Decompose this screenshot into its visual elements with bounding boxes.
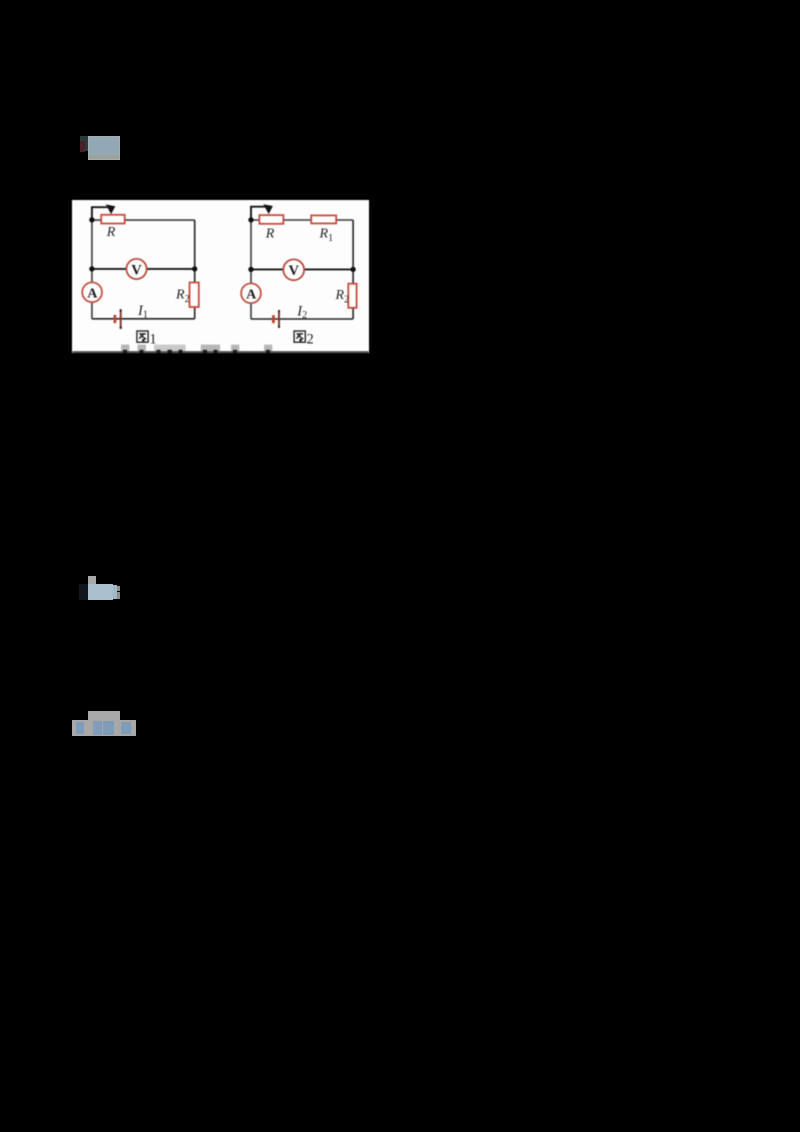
caption 图2 (figure 2) xyxy=(294,331,305,342)
rheostat arrow (slider of R, circuit2) xyxy=(251,204,273,220)
svg-text:V: V xyxy=(288,263,299,279)
node: circuit2 top-left junction xyxy=(248,217,253,222)
cropped next text line: dark stroke smear xyxy=(72,351,368,353)
subtitle fragment: grey tick upper xyxy=(117,586,120,592)
node: circuit1 middle-right junction xyxy=(192,266,197,271)
resistor R (rheostat body, circuit1) xyxy=(101,214,125,223)
subtitle fragment: grey tick lower xyxy=(117,592,120,599)
resistor R1 (circuit2) xyxy=(311,215,336,223)
cropped next text line: grey glyph tops xyxy=(121,344,272,351)
node: circuit2 middle-left junction xyxy=(248,266,253,271)
subtitle fragment: light blue sliver xyxy=(113,585,117,599)
svg-text:2: 2 xyxy=(306,331,313,347)
wire: circuit1 right vertical xyxy=(193,220,195,319)
subtitle fragment: dark glyph (middle caption) xyxy=(79,584,88,600)
svg-text:A: A xyxy=(246,287,257,302)
resistor R (rheostat body, circuit2) xyxy=(259,215,283,224)
wire: circuit1 top run (rheostat to right corner) xyxy=(91,219,194,221)
watermark block: lower grey rect (bottom-left logo) xyxy=(72,720,136,736)
caption 图1 (figure 1) xyxy=(136,331,147,342)
resistor R2 (circuit1) xyxy=(189,282,198,307)
svg-text:R: R xyxy=(264,226,274,241)
ammeter A (circuit1) xyxy=(82,282,102,302)
watermark block: upper grey rect (bottom-left logo) xyxy=(88,711,120,720)
subtitle fragment: grey square above highlight (middle caption) xyxy=(88,576,96,584)
node: circuit1 middle-left junction xyxy=(89,266,94,271)
battery (circuit2): short thick plate xyxy=(271,315,274,323)
watermark letters: blue glyph 3 xyxy=(103,721,114,735)
subtitle fragment: highlighted box (top caption) xyxy=(88,136,120,160)
wire: circuit1 middle horizontal (voltmeter branch) xyxy=(91,267,194,269)
wire: circuit2 right vertical xyxy=(352,220,354,319)
white panel background xyxy=(72,200,369,353)
voltmeter V (circuit1) xyxy=(126,258,146,278)
svg-text:R: R xyxy=(105,225,115,240)
subtitle fragment: dark teal square (top caption) xyxy=(80,136,88,151)
ammeter A (circuit2) xyxy=(241,283,261,303)
watermark letters: blue glyph 4 xyxy=(121,722,131,735)
node: circuit1 top-left junction xyxy=(89,217,94,222)
voltmeter V (circuit2) xyxy=(283,259,304,280)
svg-text:A: A xyxy=(87,286,98,301)
wire: circuit2 top run xyxy=(251,219,353,221)
svg-text:V: V xyxy=(131,262,142,278)
rheostat arrow (slider of R) xyxy=(91,204,114,220)
cropped next text line: dark glyph dashes xyxy=(123,349,270,352)
resistor R2 (circuit2) xyxy=(348,283,356,307)
battery (circuit1): long thin plate xyxy=(119,309,121,329)
wire: circuit2 bottom run xyxy=(251,318,353,320)
wire: circuit2 left vertical xyxy=(250,219,252,318)
watermark letters: blue glyph 2 xyxy=(93,721,102,735)
subtitle fragment: dark red glyph remnant xyxy=(80,141,85,152)
wire: circuit1 left vertical xyxy=(90,219,92,318)
watermark letters: blue glyph 1 xyxy=(76,722,84,734)
wire: circuit1 bottom run xyxy=(91,317,194,319)
battery (circuit1): short thick plate xyxy=(113,314,116,322)
subtitle fragment: blue highlight box (middle caption) xyxy=(88,584,113,600)
figure: white panel with two circuit schematics xyxy=(72,200,369,353)
node: circuit2 middle-right junction xyxy=(350,266,355,271)
wire: circuit2 middle horizontal (voltmeter branch) xyxy=(251,268,353,270)
battery (circuit2): long thin plate xyxy=(278,310,280,328)
